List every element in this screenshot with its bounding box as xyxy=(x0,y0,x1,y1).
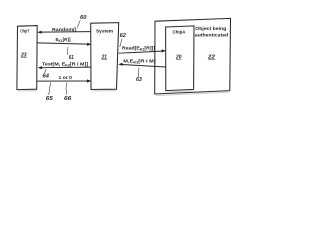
ref numeral 66 + leader xyxy=(64,82,72,102)
box Object being authenticated (22) xyxy=(155,18,231,94)
svg-text:ChipA: ChipA xyxy=(173,29,187,34)
ref numeral 22 xyxy=(207,55,216,61)
svg-text:62: 62 xyxy=(120,33,126,39)
svg-text:60: 60 xyxy=(80,15,86,21)
ref numeral 63 + leader xyxy=(136,68,142,84)
svg-text:Object being: Object being xyxy=(195,26,226,32)
svg-text:61: 61 xyxy=(69,55,74,61)
ref numeral 61 + leader xyxy=(67,47,74,61)
arrow Random(): System to ChipT xyxy=(37,31,90,34)
arrow 1 or 0: ChipT to System xyxy=(37,79,91,82)
ref numeral 60 + leader xyxy=(77,15,86,27)
svg-text:63: 63 xyxy=(136,77,142,83)
label Object being authenticated xyxy=(195,26,228,38)
ref numeral 23 xyxy=(20,53,27,59)
scan bleed shadows xyxy=(18,91,229,96)
arrow M,E_K2[R|M]: ChipA to System xyxy=(118,63,166,67)
ref numeral 62 + leader xyxy=(120,33,126,47)
box ChipT (23) xyxy=(17,26,37,90)
arrow Read[E_K1[R]]: System to ChipA xyxy=(119,49,166,53)
arrow Test[M,E_K2[R|M]]: System to ChipT xyxy=(38,66,91,69)
svg-text:65: 65 xyxy=(46,96,54,102)
svg-text:1 or 0: 1 or 0 xyxy=(59,75,73,80)
svg-text:66: 66 xyxy=(64,96,72,102)
svg-text:64: 64 xyxy=(43,74,49,80)
ref numeral 64 + leader xyxy=(43,69,49,80)
svg-text:ChipT: ChipT xyxy=(20,28,29,33)
svg-text:authenticated: authenticated xyxy=(195,32,228,38)
box System (21) xyxy=(91,23,119,90)
ref numeral 21 xyxy=(101,55,107,61)
svg-text:Random(): Random() xyxy=(52,27,77,32)
arrow E_K1[R]: ChipT to System xyxy=(37,43,91,46)
svg-text:System: System xyxy=(96,29,113,35)
ref numeral 65 + leader xyxy=(46,82,54,102)
box ChipA (20) xyxy=(166,26,194,91)
ref numeral 20 xyxy=(175,54,181,60)
